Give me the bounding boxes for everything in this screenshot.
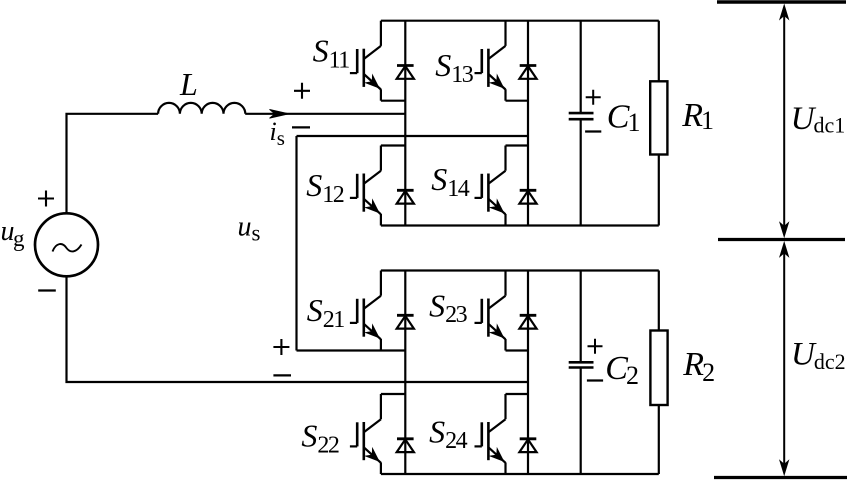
bridge2 right leg [527, 271, 529, 475]
bridge1 top rail [381, 20, 659, 22]
transistor S13 [475, 21, 506, 101]
resistor R1 lead bottom [658, 155, 660, 226]
transistor S21 [350, 271, 381, 351]
svg-text:Udc1: Udc1 [791, 101, 846, 138]
capacitor C1 branch bottom [580, 119, 582, 225]
tick line middle [718, 238, 845, 241]
collector wire S24 to leg [506, 393, 529, 395]
svg-text:L: L [179, 66, 198, 102]
ac source ug circle [35, 213, 98, 276]
emitter wire S23 to leg [506, 349, 529, 351]
diode D13 [519, 66, 536, 79]
capacitor C2 branch top [580, 271, 582, 363]
svg-text:S14: S14 [431, 161, 470, 202]
ac source sine symbol [53, 244, 82, 251]
minus sign bridge2 input [273, 374, 291, 376]
svg-text:S22: S22 [301, 418, 339, 459]
transistor S23 [475, 271, 506, 351]
minus sign bridge1 input [292, 126, 310, 128]
capacitor C1 branch top [580, 21, 582, 113]
inductor L [158, 103, 245, 114]
minus sign C2 [587, 379, 603, 381]
plus sign C1 [586, 90, 601, 105]
svg-text:is: is [270, 117, 285, 150]
diode D21 [397, 315, 414, 328]
tick line bottom [714, 476, 847, 479]
wire source top to inductor [67, 114, 159, 214]
capacitor C2 plates [569, 362, 594, 367]
minus sign at source [38, 289, 56, 291]
bridge2 bottom rail [381, 473, 659, 475]
minus sign C1 [585, 130, 601, 132]
bridge2 left leg [404, 271, 406, 475]
resistor R2 body [650, 331, 667, 406]
collector wire S14 to leg [506, 144, 529, 146]
voltage arrow Udc1 [779, 4, 789, 239]
resistor R2 lead bottom [658, 405, 660, 474]
wire source bottom to bridge2 right leg [67, 276, 529, 382]
plus sign bridge2 input [273, 339, 289, 355]
svg-text:S13: S13 [435, 47, 474, 88]
wire A inductor to bridge1 left leg [245, 113, 405, 115]
emitter wire S11 to leg [381, 100, 405, 102]
svg-text:S24: S24 [429, 413, 468, 454]
svg-text:S12: S12 [306, 167, 344, 208]
transistor S11 [350, 21, 381, 101]
svg-text:R2: R2 [682, 346, 715, 387]
transistor S22 [350, 394, 381, 474]
transistor S24 [475, 394, 506, 474]
resistor R2 lead top [658, 271, 660, 331]
diode D11 [397, 66, 414, 79]
wire C link to bridge2 left leg [297, 349, 406, 351]
capacitor C1 plates [569, 113, 594, 119]
current arrow is [270, 109, 289, 118]
bridge1 left leg [404, 21, 406, 226]
bridge2 top rail [381, 269, 659, 271]
diode D24 [519, 439, 536, 452]
diode D23 [519, 315, 536, 328]
emitter wire S13 to leg [506, 100, 529, 102]
svg-text:C2: C2 [605, 350, 639, 390]
bridge1 bottom rail [381, 224, 659, 226]
svg-text:S21: S21 [307, 292, 345, 333]
wire B bridge1 right leg to link [297, 135, 529, 137]
capacitor C2 branch bottom [580, 368, 582, 474]
svg-text:S11: S11 [313, 33, 350, 74]
plus sign at source [38, 191, 54, 207]
diode D12 [397, 190, 414, 203]
diode D22 [397, 439, 414, 452]
diode D14 [519, 190, 536, 203]
svg-text:us: us [238, 212, 261, 246]
svg-text:ug: ug [1, 216, 26, 251]
svg-text:R1: R1 [681, 97, 714, 135]
resistor R1 body [650, 81, 667, 154]
plus sign bridge1 input [294, 83, 310, 99]
link wire vertical [295, 136, 297, 351]
tick line top [717, 0, 846, 3]
bridge1 right leg [527, 21, 529, 226]
resistor R1 lead top [658, 21, 660, 82]
transistor S12 [350, 146, 381, 226]
collector wire S12 to leg [381, 144, 405, 146]
svg-text:S23: S23 [429, 287, 468, 328]
plus sign C2 [588, 339, 603, 354]
svg-text:Udc2: Udc2 [791, 337, 846, 374]
transistor S14 [475, 146, 506, 226]
svg-text:C1: C1 [607, 99, 641, 138]
collector wire S22 to leg [381, 393, 405, 395]
voltage arrow Udc2 [779, 241, 789, 476]
